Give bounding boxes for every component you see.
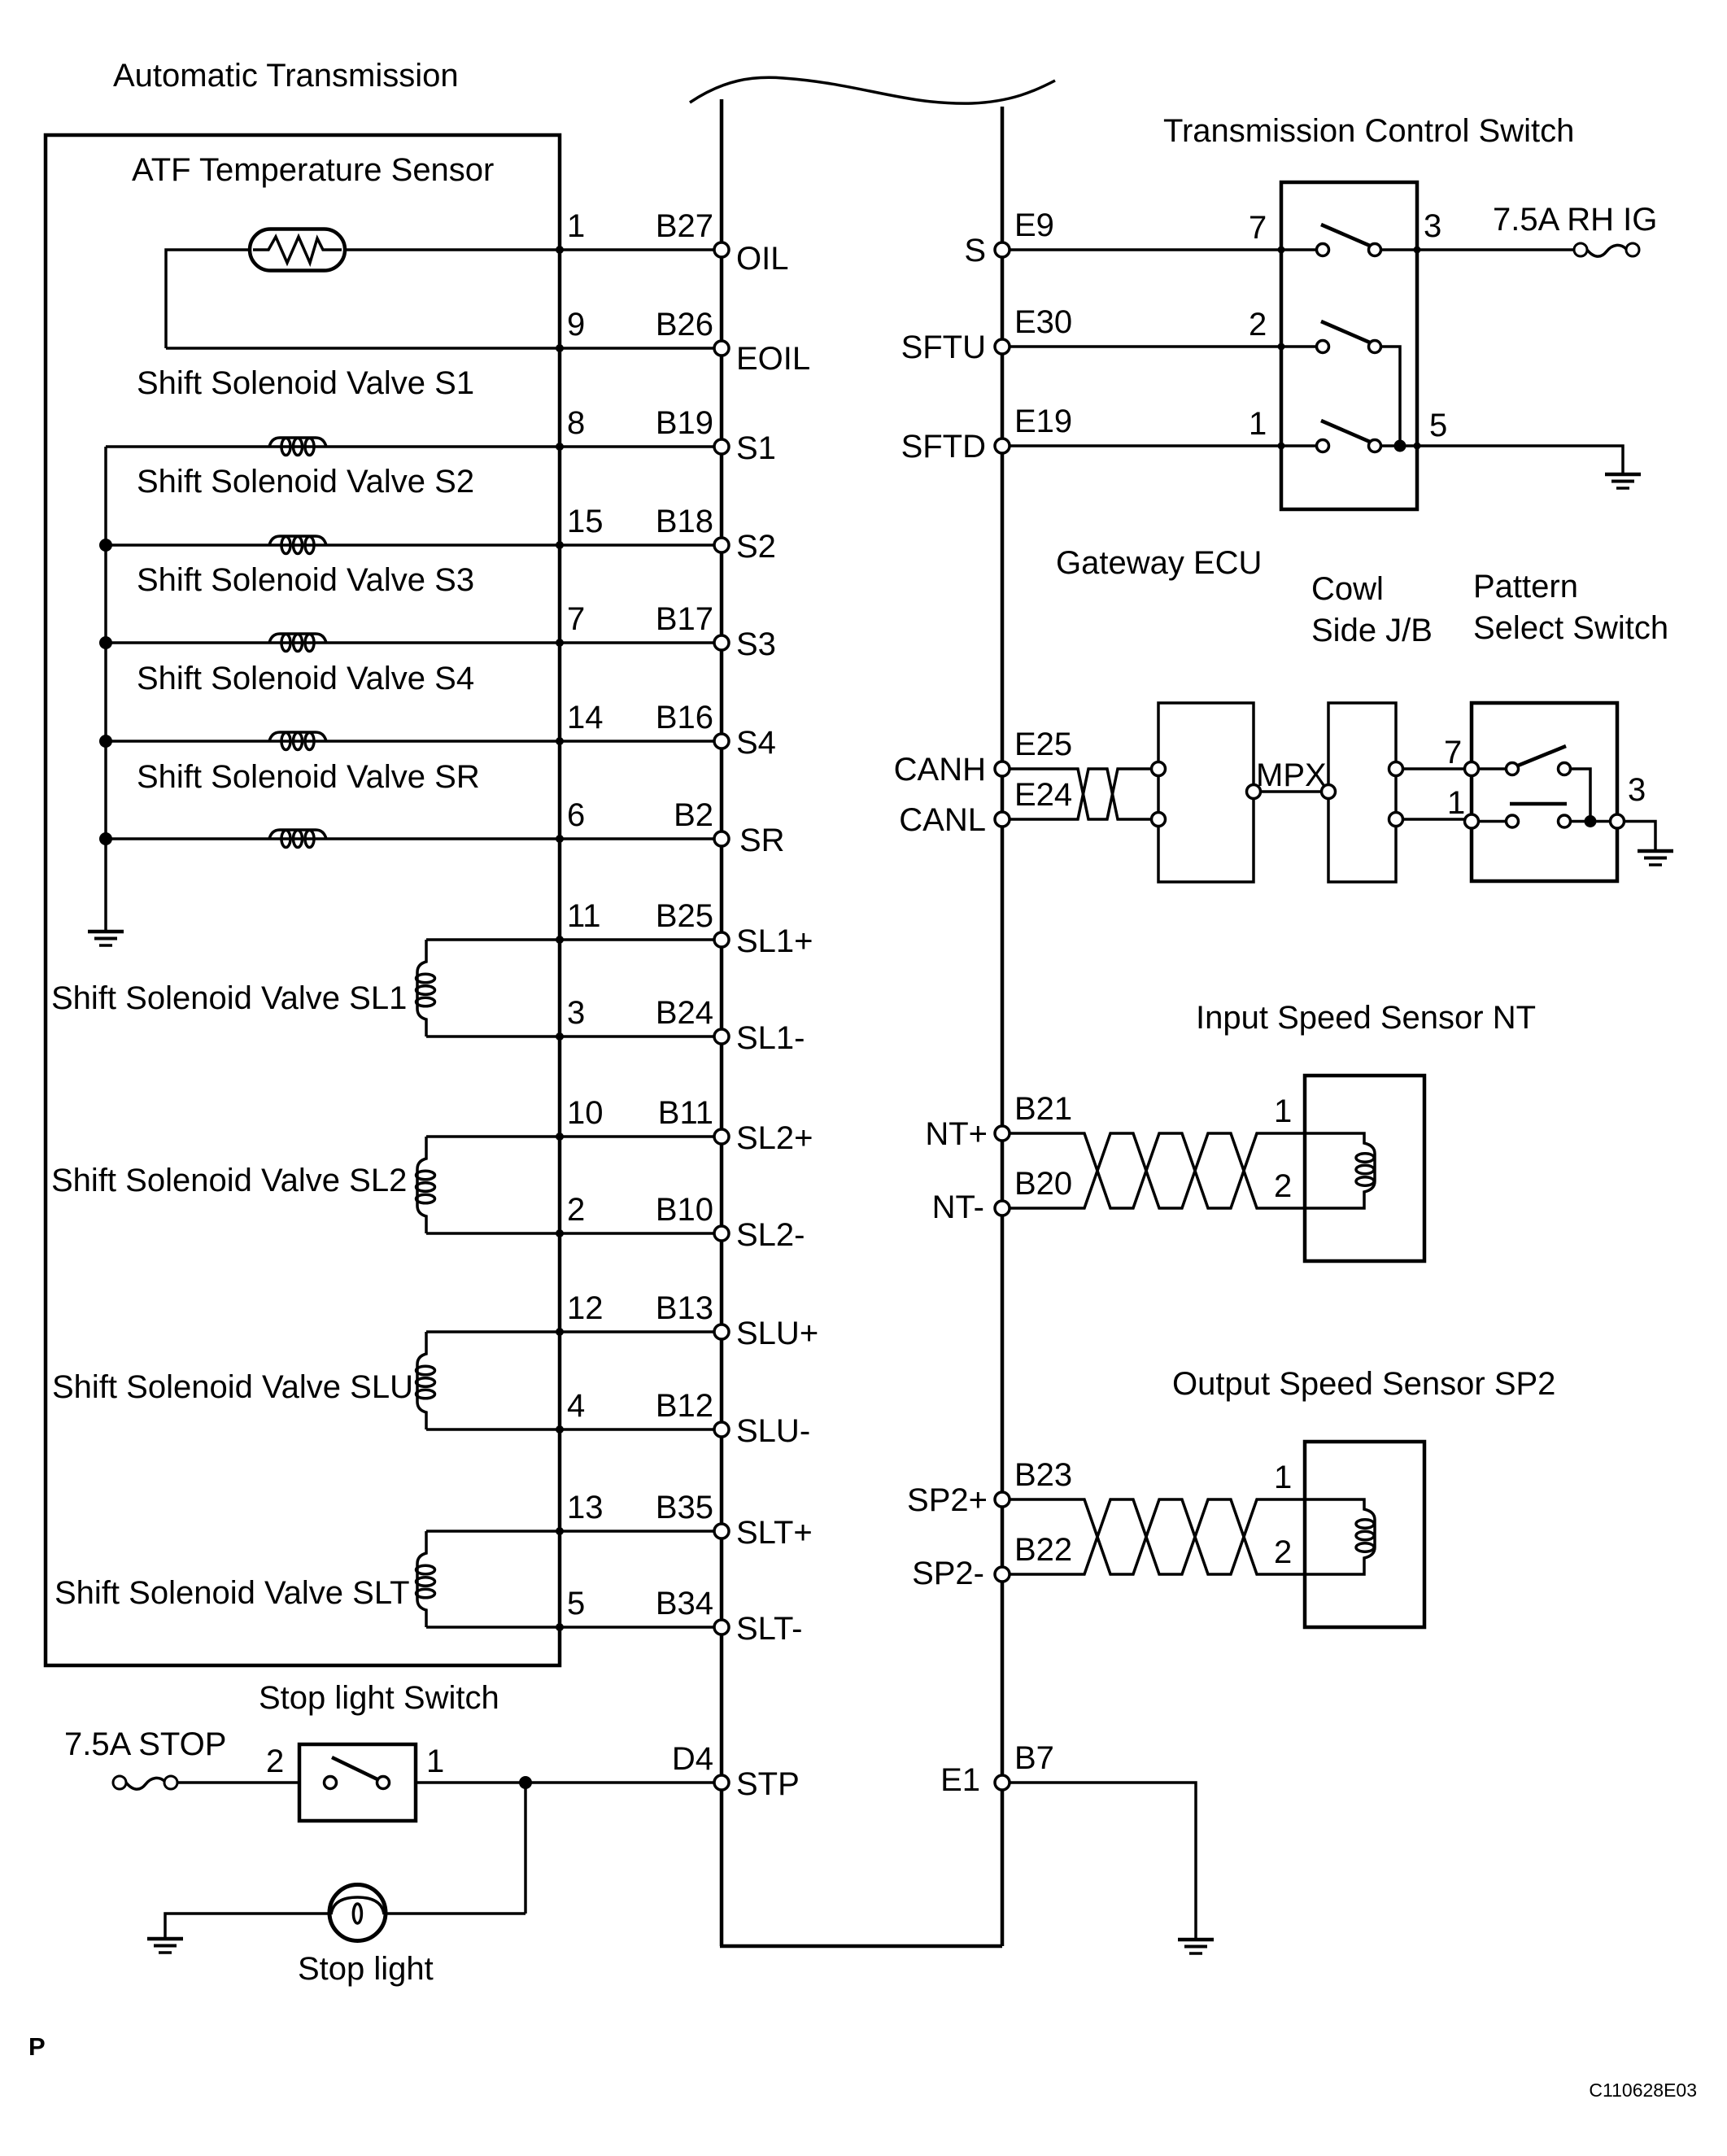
pin B35 SLT+	[567, 1490, 813, 1551]
svg-text:SLT-: SLT-	[736, 1611, 803, 1647]
PSS switch 2 blade open	[1510, 802, 1567, 806]
fuse 7.5A RH IG	[1574, 243, 1639, 256]
wire stop light to ground	[165, 1914, 526, 1939]
pin B22 SP2-	[912, 1532, 1072, 1591]
twisted pair CANH wire	[1002, 769, 1152, 819]
wire SL2+	[426, 1135, 722, 1138]
TCS switch 2 contact left	[1317, 341, 1329, 353]
svg-text:Select Switch: Select Switch	[1473, 610, 1668, 646]
Cowl J/B pin upper	[1389, 762, 1403, 776]
ground TCS	[1605, 474, 1641, 488]
pin B21 NT+	[925, 1091, 1072, 1152]
pin B25 SL1+	[567, 898, 813, 959]
solenoid coil S3	[269, 634, 326, 652]
svg-text:OIL: OIL	[736, 241, 788, 277]
svg-text:D4: D4	[672, 1741, 713, 1777]
junction rail-SR	[99, 832, 112, 845]
svg-text:E9: E9	[1014, 207, 1054, 243]
svg-text:NT+: NT+	[925, 1116, 988, 1152]
svg-text:SL2-: SL2-	[736, 1217, 805, 1253]
svg-text:14: 14	[567, 700, 604, 735]
wire SFTD to TCS	[1002, 444, 1316, 447]
svg-text:Shift Solenoid Valve SR: Shift Solenoid Valve SR	[137, 759, 480, 795]
svg-text:NT-: NT-	[932, 1189, 984, 1225]
wire thermistor left leg	[166, 250, 250, 348]
wire solenoid common rail	[104, 447, 107, 932]
svg-text:2: 2	[1249, 307, 1267, 343]
TCS switch 2 blade	[1321, 321, 1370, 343]
svg-text:1: 1	[1274, 1093, 1292, 1129]
svg-text:6: 6	[567, 797, 585, 833]
pin B7 E1	[940, 1740, 1054, 1798]
pin E30 SFTU	[901, 304, 1073, 365]
stop light switch contact left	[325, 1777, 337, 1789]
pin B23 SP2+	[907, 1457, 1072, 1518]
svg-text:Shift Solenoid Valve SL2: Shift Solenoid Valve SL2	[51, 1163, 407, 1198]
solenoid coil SL1	[416, 940, 435, 1037]
wire PSS lower row	[1472, 820, 1617, 823]
svg-text:Pattern: Pattern	[1473, 569, 1578, 604]
svg-text:5: 5	[1429, 408, 1447, 443]
svg-text:Shift Solenoid Valve S1: Shift Solenoid Valve S1	[137, 365, 474, 401]
svg-text:B25: B25	[656, 898, 713, 934]
TCS switch 1 blade	[1321, 225, 1370, 246]
wire Cowl to PSS pin 7	[1402, 767, 1465, 770]
twisted pair NT+ wire	[1002, 1133, 1305, 1208]
PSS switch 1 blade	[1518, 746, 1566, 766]
stop light switch box	[299, 1744, 416, 1821]
ECU bus line left (B connector)	[720, 99, 724, 1946]
twisted pair CANL wire	[1002, 769, 1152, 819]
junction rail-S3	[99, 636, 112, 649]
stop light switch contact right	[377, 1777, 390, 1789]
wire TCS sw2 link down	[1381, 347, 1400, 446]
svg-text:B18: B18	[656, 504, 713, 539]
TCS switch 1 contact left	[1317, 244, 1329, 256]
svg-text:B24: B24	[656, 995, 713, 1031]
pin B24 SL1-	[567, 995, 805, 1056]
svg-text:CANL: CANL	[899, 802, 986, 838]
svg-text:B7: B7	[1014, 1740, 1054, 1776]
pin E25 CANH	[894, 727, 1073, 788]
thermistor ATF temperature sensor	[250, 229, 345, 271]
pin E19 SFTD	[901, 404, 1073, 465]
solenoid coil SR	[269, 830, 326, 848]
svg-text:Shift Solenoid Valve S4: Shift Solenoid Valve S4	[137, 661, 474, 696]
svg-text:Output Speed Sensor SP2: Output Speed Sensor SP2	[1172, 1366, 1555, 1402]
Transmission Control Switch box	[1281, 182, 1417, 509]
svg-text:E24: E24	[1014, 777, 1072, 813]
stop light switch blade	[332, 1757, 379, 1780]
wire SLT-	[426, 1626, 722, 1629]
svg-text:P: P	[28, 2032, 46, 2061]
pin B26 EOIL	[567, 307, 810, 377]
svg-text:SLU+: SLU+	[736, 1316, 818, 1351]
svg-text:B22: B22	[1014, 1532, 1072, 1568]
pin B20 NT-	[932, 1166, 1073, 1225]
svg-text:3: 3	[567, 995, 585, 1031]
wire EOIL to bus	[166, 347, 722, 350]
Cowl J/B pin MPX	[1322, 785, 1336, 799]
Gateway ECU pin CANL	[1152, 813, 1166, 827]
wire break wavy line	[690, 77, 1055, 103]
svg-text:1: 1	[567, 208, 585, 244]
pin B12 SLU-	[567, 1388, 810, 1449]
svg-text:EOIL: EOIL	[736, 341, 810, 377]
svg-text:15: 15	[567, 504, 604, 539]
twisted pair SP2+ wire	[1002, 1499, 1305, 1574]
solenoid coil S2	[269, 536, 326, 554]
svg-text:E19: E19	[1014, 404, 1072, 439]
Cowl Side J/B box	[1328, 703, 1396, 882]
pin B13 SLU+	[567, 1290, 818, 1351]
pin B16 S4	[567, 700, 776, 761]
svg-text:13: 13	[567, 1490, 604, 1525]
junction STP to stop light	[519, 1776, 532, 1789]
svg-text:Input Speed Sensor NT: Input Speed Sensor NT	[1196, 1000, 1536, 1036]
svg-text:S3: S3	[736, 626, 776, 662]
svg-text:SL1-: SL1-	[736, 1020, 805, 1056]
pin B19 S1	[567, 405, 776, 466]
svg-text:7.5A RH IG: 7.5A RH IG	[1493, 202, 1657, 238]
Automatic Transmission box	[46, 135, 560, 1665]
svg-text:S1: S1	[736, 430, 776, 466]
svg-text:SR: SR	[739, 823, 785, 858]
svg-text:12: 12	[567, 1290, 604, 1326]
svg-text:9: 9	[567, 307, 585, 343]
svg-text:CANH: CANH	[894, 752, 986, 788]
wire SLU+	[426, 1330, 722, 1333]
solenoid coil SL2	[416, 1137, 435, 1233]
svg-text:8: 8	[567, 405, 585, 441]
TCS switch 3 blade	[1321, 421, 1370, 442]
svg-text:B11: B11	[658, 1095, 713, 1131]
ground stop light	[147, 1939, 183, 1953]
ground solenoid rail	[88, 932, 124, 945]
junction dots TCS box edges	[1278, 247, 1421, 450]
svg-text:B19: B19	[656, 405, 713, 441]
svg-text:7: 7	[1249, 210, 1267, 246]
solenoid coil SLT	[416, 1531, 435, 1627]
svg-text:S4: S4	[736, 725, 776, 761]
svg-text:11: 11	[567, 898, 601, 934]
wire junction down to stop light	[524, 1783, 527, 1914]
wire SL1-	[426, 1035, 722, 1038]
svg-text:E25: E25	[1014, 727, 1072, 762]
junction rail-S4	[99, 735, 112, 748]
svg-text:B16: B16	[656, 700, 713, 735]
svg-text:2: 2	[266, 1744, 284, 1779]
svg-text:Shift Solenoid Valve S3: Shift Solenoid Valve S3	[137, 562, 474, 598]
svg-text:SFTD: SFTD	[901, 429, 986, 465]
wire S1	[106, 445, 722, 448]
svg-text:SL2+: SL2+	[736, 1120, 813, 1156]
ECU bus bottom connecting line	[720, 1944, 1002, 1949]
wire SFTU to TCS	[1002, 345, 1316, 348]
svg-text:SFTU: SFTU	[901, 330, 986, 365]
PSS switch 1 contact right	[1559, 763, 1571, 775]
svg-text:B2: B2	[674, 797, 713, 833]
TCS switch 3 contact right	[1369, 440, 1381, 452]
pin D4 STP	[672, 1741, 800, 1802]
pin B18 S2	[567, 504, 776, 565]
svg-text:Stop light: Stop light	[298, 1951, 434, 1987]
svg-text:B34: B34	[656, 1586, 713, 1621]
pin B2 SR	[567, 797, 785, 858]
TCS switch 3 contact left	[1317, 440, 1329, 452]
Output Speed Sensor SP2 box	[1305, 1442, 1424, 1627]
pin B34 SLT-	[567, 1586, 803, 1647]
svg-text:1: 1	[426, 1744, 444, 1779]
Gateway ECU pin MPX	[1247, 785, 1261, 799]
wire OIL from thermistor to bus	[345, 248, 722, 251]
svg-text:B13: B13	[656, 1290, 713, 1326]
PSS pin 7 circle	[1465, 762, 1479, 776]
pin B17 S3	[567, 601, 776, 662]
wire STP switch to bus	[416, 1781, 722, 1784]
wire S to TCS	[1002, 248, 1316, 251]
svg-text:B10: B10	[656, 1192, 713, 1228]
pin E9 S	[964, 207, 1054, 268]
svg-text:Transmission Control Switch: Transmission Control Switch	[1163, 113, 1574, 149]
wire SR	[106, 837, 722, 840]
svg-text:B21: B21	[1014, 1091, 1072, 1127]
svg-text:E1: E1	[940, 1762, 980, 1798]
svg-text:SLT+: SLT+	[736, 1515, 813, 1551]
solenoid coil SLU	[416, 1332, 435, 1429]
wire S4	[106, 740, 722, 743]
svg-text:S2: S2	[736, 529, 776, 565]
wire PSS upper row	[1472, 767, 1507, 770]
svg-text:ATF Temperature Sensor: ATF Temperature Sensor	[132, 152, 494, 188]
svg-text:E30: E30	[1014, 304, 1072, 340]
wire TCS sw1 to fuse	[1381, 248, 1574, 251]
svg-text:Shift Solenoid Valve SL1: Shift Solenoid Valve SL1	[51, 980, 407, 1016]
wire E1 to ground	[1002, 1783, 1196, 1940]
svg-text:Shift Solenoid Valve SLT: Shift Solenoid Valve SLT	[55, 1575, 410, 1611]
wire TCS sw3 to ground	[1381, 446, 1623, 474]
wire MPX	[1260, 790, 1322, 793]
svg-text:10: 10	[567, 1095, 604, 1131]
svg-text:Gateway ECU: Gateway ECU	[1056, 545, 1262, 581]
svg-text:SLU-: SLU-	[736, 1413, 810, 1449]
svg-text:B17: B17	[656, 601, 713, 637]
TCS switch 2 contact right	[1369, 341, 1381, 353]
svg-text:SP2-: SP2-	[912, 1556, 984, 1591]
svg-text:2: 2	[567, 1192, 585, 1228]
svg-text:B20: B20	[1014, 1166, 1072, 1202]
PSS switch 2 contact left	[1507, 815, 1519, 827]
SP2 sensor pickup coil	[1305, 1499, 1375, 1574]
stop light lamp	[329, 1885, 386, 1941]
ground PSS	[1638, 851, 1673, 865]
Pattern Select Switch box	[1472, 703, 1617, 881]
svg-text:B27: B27	[656, 208, 713, 244]
solenoid coil S4	[269, 732, 326, 750]
wire fuse to stop light switch	[177, 1781, 299, 1784]
pin B10 SL2-	[567, 1192, 805, 1253]
wire SLT+	[426, 1530, 722, 1533]
Cowl J/B pin lower	[1389, 813, 1403, 827]
svg-text:Side J/B: Side J/B	[1311, 613, 1433, 648]
Input Speed Sensor NT box	[1305, 1076, 1424, 1261]
svg-text:SP2+: SP2+	[907, 1482, 988, 1518]
fuse 7.5A STOP	[113, 1776, 177, 1789]
svg-text:B12: B12	[656, 1388, 713, 1424]
svg-text:STP: STP	[736, 1766, 800, 1802]
pin B27 OIL	[567, 208, 788, 277]
PSS pin 3 circle	[1611, 814, 1625, 828]
svg-text:1: 1	[1447, 785, 1465, 821]
junction rail-S2	[99, 539, 112, 552]
solenoid coil S1	[269, 438, 326, 456]
svg-text:7: 7	[1444, 735, 1462, 770]
NT sensor pickup coil	[1305, 1133, 1375, 1208]
ECU bus line right (E connector)	[1001, 107, 1005, 1946]
Gateway ECU box	[1158, 703, 1254, 882]
junction dots where wires cross AT box edge	[556, 246, 564, 1631]
wire SL1+	[426, 938, 722, 941]
svg-text:S: S	[964, 233, 986, 268]
svg-text:Shift Solenoid Valve SLU: Shift Solenoid Valve SLU	[52, 1369, 413, 1405]
svg-text:5: 5	[567, 1586, 585, 1621]
junction TCS sw2-sw3	[1394, 440, 1406, 452]
svg-text:7.5A STOP: 7.5A STOP	[64, 1726, 226, 1762]
svg-text:1: 1	[1274, 1460, 1292, 1495]
svg-text:C110628E03: C110628E03	[1589, 2080, 1697, 2101]
svg-text:4: 4	[567, 1388, 585, 1424]
svg-text:7: 7	[567, 601, 585, 637]
svg-text:2: 2	[1274, 1168, 1292, 1204]
PSS switch 1 contact left	[1507, 763, 1519, 775]
wire Cowl to PSS pin 1	[1402, 818, 1465, 821]
wire PSS to ground	[1617, 822, 1655, 852]
svg-text:2: 2	[1274, 1534, 1292, 1570]
svg-text:Cowl: Cowl	[1311, 571, 1384, 607]
svg-text:1: 1	[1249, 406, 1267, 442]
wire PSS upper link down	[1571, 769, 1590, 822]
svg-text:3: 3	[1628, 772, 1646, 808]
junction PSS link	[1585, 815, 1597, 827]
TCS switch 1 contact right	[1369, 244, 1381, 256]
Gateway ECU pin CANH	[1152, 762, 1166, 776]
pin B11 SL2+	[567, 1095, 813, 1156]
pin E24 CANL	[899, 777, 1072, 838]
svg-text:Shift Solenoid Valve S2: Shift Solenoid Valve S2	[137, 464, 474, 500]
svg-text:B26: B26	[656, 307, 713, 343]
twisted pair SP2- wire	[1002, 1499, 1305, 1574]
ground E1	[1178, 1940, 1214, 1953]
twisted pair NT- wire	[1002, 1133, 1305, 1208]
wire S3	[106, 641, 722, 644]
svg-text:B23: B23	[1014, 1457, 1072, 1493]
svg-text:B35: B35	[656, 1490, 713, 1525]
wire S2	[106, 543, 722, 547]
wire SL2-	[426, 1232, 722, 1235]
svg-text:3: 3	[1424, 208, 1441, 244]
wire SLU-	[426, 1428, 722, 1431]
svg-text:SL1+: SL1+	[736, 923, 813, 959]
svg-text:MPX: MPX	[1256, 757, 1327, 793]
svg-text:Automatic Transmission: Automatic Transmission	[113, 58, 459, 94]
svg-text:Stop light Switch: Stop light Switch	[259, 1680, 499, 1716]
PSS switch 2 contact right	[1559, 815, 1571, 827]
PSS pin 1 circle	[1465, 814, 1479, 828]
